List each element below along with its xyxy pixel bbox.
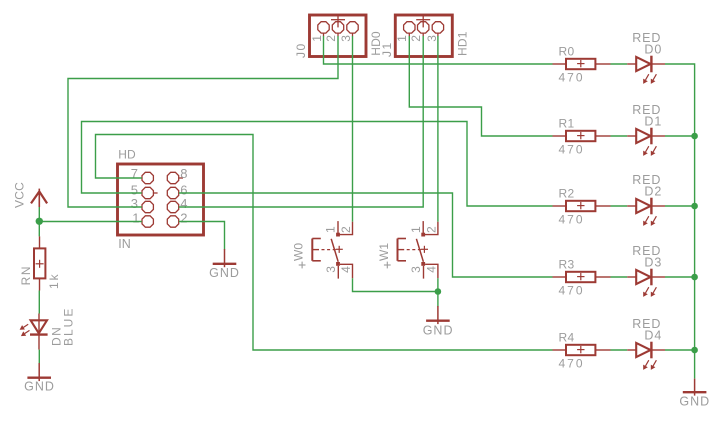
svg-text:4: 4 (425, 266, 439, 273)
resistor R4 pins (553, 349, 611, 351)
label DN (49, 326, 63, 346)
LED D1 (636, 128, 651, 145)
wire D2 to rail (665, 205, 695, 207)
label HD (118, 148, 136, 162)
svg-text:R2: R2 (559, 186, 575, 200)
switch W1 button (398, 239, 407, 261)
switch W1 dashed link (407, 249, 422, 251)
power VCC symbol (31, 189, 47, 207)
svg-text:R3: R3 (559, 257, 575, 271)
svg-text:R1: R1 (559, 116, 575, 130)
resistor R4 (566, 345, 595, 355)
wire HD pin5 net (82, 122, 553, 207)
value 470 R3 (559, 284, 585, 298)
connector J1 pin 1 stub (408, 33, 410, 36)
label D2 (644, 185, 662, 199)
switch W1 pin 3 lead (423, 266, 425, 279)
wire D4 to rail (665, 349, 695, 351)
svg-text:VCC: VCC (12, 182, 26, 208)
svg-text:GND: GND (679, 395, 710, 409)
J0 pin number 1 (310, 35, 324, 42)
svg-text:470: 470 (559, 71, 585, 85)
svg-text:470: 470 (559, 284, 585, 298)
svg-text:3: 3 (324, 266, 338, 273)
HD pin number 3 (131, 196, 138, 211)
header HD pin 8 stub (179, 177, 183, 179)
label R4 (559, 330, 575, 344)
resistor R3 (566, 272, 595, 282)
wire RN to DN (38, 291, 40, 314)
value 1k (47, 272, 61, 289)
label R3 (559, 257, 575, 271)
svg-text:3: 3 (425, 35, 439, 42)
switch W0 bottom contact (336, 262, 340, 266)
connector J1 pad 1 (404, 22, 415, 33)
svg-text:1: 1 (132, 210, 139, 225)
W0 pin number 3 (324, 266, 338, 273)
header HD pad 5 (142, 187, 153, 198)
ground GND switches (426, 306, 450, 324)
LED D3 (636, 269, 651, 286)
label GND middle (209, 266, 240, 280)
node rail junction row 1 (691, 133, 698, 140)
header HD pad 4 (167, 201, 178, 212)
switch W0 top contact (336, 233, 340, 237)
ground GND right (683, 379, 707, 396)
LED D4 arrow 2 (651, 360, 657, 370)
HD pin number 4 (180, 196, 187, 211)
LED D1 arrow 1 (643, 146, 649, 156)
HD pin number 2 (180, 210, 187, 225)
svg-text:3: 3 (131, 196, 138, 211)
value 470 R1 (559, 143, 585, 157)
label D3 (644, 256, 662, 270)
wire junction to GND (437, 292, 439, 307)
value RED D3 (632, 244, 661, 258)
HD pin number 5 (131, 182, 138, 197)
resistor R3 pins (553, 276, 611, 278)
value RED D1 (632, 103, 661, 117)
connector J0 pin 2 stub (337, 33, 339, 36)
label RN (19, 265, 33, 285)
connector J0 pin 3 stub (352, 33, 354, 36)
wire J1 pin3 to W1 pin2 (437, 36, 439, 222)
wire J1 pin1 to R1 (409, 36, 552, 136)
LED D0 arrow 1 (643, 74, 649, 84)
resistor R2 (566, 201, 595, 211)
switch W1 pin 4 lead (425, 264, 438, 278)
J1 pin number 3 (425, 35, 439, 42)
resistor R2 pins (553, 205, 611, 207)
label D4 (644, 329, 662, 343)
svg-text:R4: R4 (559, 330, 575, 344)
wire DN to GND (38, 350, 40, 363)
svg-text:D1: D1 (644, 115, 662, 129)
svg-text:1: 1 (310, 35, 324, 42)
wire HD pin7 net (96, 135, 553, 351)
LED DN arrow 2 (21, 330, 30, 336)
wire HD pin2 to GND (179, 222, 225, 250)
wire VCC to junction (38, 207, 40, 236)
node VCC junction (36, 218, 43, 225)
LED D2 pins (627, 205, 665, 207)
header HD pad 6 (167, 187, 178, 198)
LED DN arrow 1 (20, 324, 29, 330)
switch W1 pin 1 lead (422, 221, 424, 233)
HD pin number 8 (180, 166, 187, 181)
connector J1 box (395, 15, 452, 57)
LED D0 arrow 2 (651, 74, 657, 84)
connector J1 pin 3 stub (437, 33, 439, 36)
W1 pin number 2 (425, 226, 439, 233)
svg-text:IN: IN (118, 237, 131, 251)
svg-text:R0: R0 (559, 44, 575, 58)
connector J0 pad 2 (332, 22, 343, 33)
wire W1 pin4 to junction (437, 278, 439, 291)
value 470 R2 (559, 213, 585, 227)
wire R3 to D3 (611, 276, 628, 278)
LED D3 arrow 2 (651, 287, 657, 297)
connector J0 pad 3 (347, 22, 358, 33)
wire J0 pin2 to HD pin3 (68, 36, 338, 207)
LED D1 arrow 2 (651, 146, 657, 156)
W1 pin number 4 (425, 266, 439, 273)
W0 pin number 1 (324, 226, 338, 233)
header HD pad 7 (142, 172, 153, 183)
svg-text:D2: D2 (644, 185, 662, 199)
value RED D4 (632, 317, 661, 331)
switch W0 pin 1 lead (337, 221, 339, 233)
W1 pin number 3 (409, 266, 423, 273)
label GND left (24, 380, 55, 394)
LED D1 pins (627, 135, 665, 137)
svg-text:470: 470 (559, 143, 585, 157)
J1 pin number 2 (409, 35, 423, 42)
connector J1 polarity cross (416, 14, 430, 27)
W1 pin number 1 (409, 226, 423, 233)
header HD pad 8 (167, 172, 178, 183)
LED D2 arrow 1 (643, 216, 649, 226)
LED D0 (636, 56, 651, 73)
connector J0 polarity cross (331, 14, 345, 27)
wire R2 to D2 (611, 205, 628, 207)
ground GND left (27, 363, 51, 381)
label D0 (644, 43, 662, 57)
resistor R0 (566, 59, 595, 69)
header HD pad 1 (142, 216, 153, 227)
switch W1 pin 2 lead (424, 222, 438, 235)
svg-text:W1: W1 (377, 243, 391, 261)
wire junction to HD pin1 (39, 221, 142, 223)
svg-text:D0: D0 (644, 43, 662, 57)
svg-text:GND: GND (209, 266, 240, 280)
J1 pin number 1 (395, 35, 409, 42)
HD pin number 7 (131, 166, 138, 181)
node switch GND junction (435, 288, 442, 295)
label R2 (559, 186, 575, 200)
node rail junction row 4 (691, 347, 698, 354)
LED D4 arrow 1 (643, 360, 649, 370)
svg-text:6: 6 (180, 182, 187, 197)
LED D0 pins (627, 63, 665, 65)
node rail junction row 2 (691, 203, 698, 210)
W1 origin cross (384, 262, 391, 269)
svg-text:BLUE: BLUE (61, 307, 75, 346)
svg-text:D4: D4 (644, 329, 662, 343)
switch W1 lever (416, 239, 423, 262)
wire R4 to D4 (611, 349, 628, 351)
svg-text:470: 470 (559, 357, 585, 371)
svg-text:GND: GND (423, 324, 454, 338)
svg-text:HD1: HD1 (455, 31, 469, 56)
W0 pin number 4 (339, 266, 353, 273)
HD pin number 6 (180, 182, 187, 197)
svg-text:J0: J0 (294, 42, 308, 58)
svg-text:2: 2 (324, 35, 338, 42)
W0 pin number 2 (339, 226, 353, 233)
svg-text:D3: D3 (644, 256, 662, 270)
LED D3 arrow 1 (643, 287, 649, 297)
label VCC (12, 182, 26, 208)
resistor RN (34, 248, 45, 278)
svg-text:1: 1 (324, 226, 338, 233)
label IN (118, 237, 131, 251)
header HD box (118, 164, 204, 235)
switch W1 bottom contact (421, 262, 425, 266)
node rail junction row 3 (691, 274, 698, 281)
wire R0 to D0 (611, 63, 628, 65)
svg-text:4: 4 (339, 266, 353, 273)
LED D2 (636, 198, 651, 215)
LED DN pins (38, 314, 40, 350)
connector J0 box (310, 15, 367, 57)
connector J1 pad 3 (432, 22, 443, 33)
label HD0 (369, 31, 383, 56)
wire D1 to rail (665, 135, 695, 137)
LED D3 pins (627, 276, 665, 278)
W0 origin cross (299, 262, 306, 269)
switch W0 lever (331, 239, 338, 262)
header HD pin 5 stub (153, 192, 157, 194)
connector J0 pad 1 (318, 22, 329, 33)
LED D2 arrow 2 (651, 216, 657, 226)
svg-text:2: 2 (409, 35, 423, 42)
label GND switches (423, 324, 454, 338)
resistor R0 pins (553, 63, 611, 65)
svg-text:5: 5 (131, 182, 138, 197)
svg-text:GND: GND (24, 380, 55, 394)
LED D4 pins (627, 349, 665, 351)
wire D0 to rail and down (665, 64, 695, 379)
label HD1 (455, 31, 469, 56)
header HD pad 2 (167, 216, 178, 227)
svg-text:1k: 1k (47, 272, 61, 289)
wire J0 pin3 to W0 pin2 (352, 36, 354, 222)
switch W0 pin 3 lead (337, 266, 339, 279)
svg-text:2: 2 (425, 226, 439, 233)
resistor R1 (566, 131, 595, 141)
value RED D0 (632, 31, 661, 45)
value 470 R0 (559, 71, 585, 85)
label J1 (380, 41, 394, 57)
svg-text:2: 2 (339, 226, 353, 233)
svg-text:3: 3 (409, 266, 423, 273)
svg-text:8: 8 (180, 166, 187, 181)
switch W1 top contact (421, 233, 425, 237)
LED DN (30, 320, 48, 334)
switch W1 actuator cross (421, 246, 428, 253)
svg-text:HD: HD (118, 148, 136, 162)
wire J0 pin1 to R0 (324, 36, 553, 64)
label D1 (644, 115, 662, 129)
connector J1 pad 2 (418, 22, 429, 33)
value 470 R4 (559, 357, 585, 371)
svg-text:W0: W0 (292, 243, 306, 261)
ground GND middle (213, 249, 237, 267)
J0 pin number 3 (339, 35, 353, 42)
resistor RN pins (39, 236, 41, 290)
wire R1 to D1 (611, 135, 628, 137)
wire D3 to rail (665, 276, 695, 278)
connector J1 pin 2 stub (422, 33, 424, 36)
svg-text:4: 4 (180, 196, 187, 211)
switch W0 button (312, 239, 321, 261)
wire W0 pin4 to junction (353, 278, 438, 291)
wire HD pin6 to R3 (179, 193, 553, 277)
value RED D2 (632, 173, 661, 187)
svg-text:470: 470 (559, 213, 585, 227)
svg-text:RN: RN (19, 265, 33, 285)
svg-text:1: 1 (395, 35, 409, 42)
LED D4 (636, 342, 651, 359)
wire J1 pin2 to HD pin4 (179, 36, 423, 207)
HD pin number 1 (132, 210, 139, 225)
switch W0 dashed link (322, 249, 337, 251)
svg-text:1: 1 (409, 226, 423, 233)
label GND right (679, 395, 710, 409)
J0 pin number 2 (324, 35, 338, 42)
svg-text:3: 3 (339, 35, 353, 42)
value BLUE (61, 307, 75, 346)
switch W0 pin 4 lead (340, 264, 353, 278)
label J0 (294, 42, 308, 58)
svg-text:2: 2 (180, 210, 187, 225)
label R0 (559, 44, 575, 58)
header HD pad 3 (142, 201, 153, 212)
switch W0 pin 2 lead (339, 222, 353, 235)
resistor R1 pins (553, 135, 611, 137)
connector J0 pin 1 stub (323, 33, 325, 36)
label W0 (292, 243, 306, 261)
svg-text:J1: J1 (380, 41, 394, 57)
switch W0 actuator cross (336, 246, 343, 253)
label R1 (559, 116, 575, 130)
label W1 (377, 243, 391, 261)
